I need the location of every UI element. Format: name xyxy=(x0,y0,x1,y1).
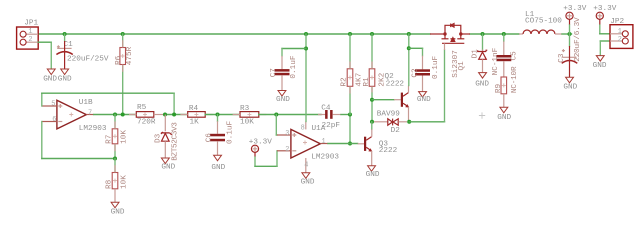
svg-text:2: 2 xyxy=(618,36,622,44)
wire: JP2 pin2 to ground xyxy=(600,40,610,42)
node junction C6 xyxy=(216,113,220,117)
node junction C2 branch xyxy=(407,46,411,50)
wire: +3.3V to U1A pin2 xyxy=(254,152,256,157)
ground GND (R8) xyxy=(111,202,125,216)
svg-text:R9: R9 xyxy=(495,83,503,93)
inductor L1 CO75-100 xyxy=(519,11,562,34)
ground GND (C7) xyxy=(276,91,290,104)
svg-text:GND: GND xyxy=(417,96,431,104)
svg-text:2222: 2222 xyxy=(379,147,398,155)
svg-text:10K: 10K xyxy=(120,175,128,189)
capacitor C3 220uF/6.3V xyxy=(558,17,582,77)
ground GND (JP1 pin2) xyxy=(43,69,57,84)
resistor R8 10K xyxy=(106,159,129,203)
transistor Q1 SI2307 p-mosfet xyxy=(430,24,470,78)
svg-text:+3.3V: +3.3V xyxy=(563,5,586,13)
wire: U1B pin6 loop to R7/R8 node xyxy=(41,122,43,159)
svg-text:720R: 720R xyxy=(137,119,156,127)
supply +3.3V (U1A ref) xyxy=(249,139,272,153)
svg-text:D1: D1 xyxy=(471,49,479,59)
ground GND (D3) xyxy=(161,158,175,171)
capacitor C6 0.1uF xyxy=(206,115,235,156)
capacitor C4 22pF xyxy=(318,105,341,131)
node junction D1 on rail xyxy=(481,32,485,36)
node junction R6 bottom xyxy=(121,113,125,117)
svg-text:7: 7 xyxy=(88,109,92,117)
svg-text:GND: GND xyxy=(366,171,380,179)
resistor R1 2K2 xyxy=(363,34,386,122)
svg-text:NC-1nF: NC-1nF xyxy=(492,47,500,75)
ground GND (C3) xyxy=(563,77,577,91)
svg-text:GND: GND xyxy=(497,114,511,122)
svg-text:R6: R6 xyxy=(115,55,123,65)
wire: R1 node to Q2 base xyxy=(372,99,394,101)
ground GND (D1) xyxy=(475,73,489,89)
diode D1 schottky xyxy=(471,34,487,72)
transistor Q2 2222 xyxy=(385,73,410,122)
svg-text:D3: D3 xyxy=(155,133,163,143)
svg-text:R8: R8 xyxy=(106,179,114,189)
svg-text:GND: GND xyxy=(563,84,577,92)
ground GND (C2) xyxy=(417,92,431,105)
resistor R3 10K xyxy=(233,105,267,127)
wire: C4 to R2/output node xyxy=(341,114,350,116)
resistor R2 4K7 xyxy=(341,34,364,115)
svg-text:Q1: Q1 xyxy=(458,61,466,71)
svg-text:C6: C6 xyxy=(206,133,214,143)
resistor R4 1K xyxy=(180,105,212,127)
svg-text:0.1uF: 0.1uF xyxy=(432,56,440,79)
wire: rail to Q2 collector / C2 branch xyxy=(408,34,410,86)
svg-text:1: 1 xyxy=(322,138,326,146)
connector JP1 xyxy=(17,20,39,49)
svg-text:GND: GND xyxy=(301,179,315,187)
supply +3.3V (JP2) xyxy=(593,5,616,19)
svg-text:4: 4 xyxy=(304,162,308,170)
node junction Q2 collector on rail xyxy=(407,32,411,36)
node junction Q2 emitter / D2 cathode xyxy=(407,120,411,124)
svg-text:D2: D2 xyxy=(391,127,401,135)
node junction feedback tap xyxy=(172,113,176,117)
svg-text:2: 2 xyxy=(28,36,32,44)
node junction R1 bottom / Q2 base xyxy=(370,98,374,102)
node junction C3 xyxy=(568,32,572,36)
supply +3.3V (output) xyxy=(563,5,586,34)
svg-text:2222: 2222 xyxy=(386,81,405,89)
node junction C4 right xyxy=(348,113,352,117)
node junction U1A output xyxy=(348,142,352,146)
svg-text:C5: C5 xyxy=(510,51,518,61)
node junction D3 xyxy=(163,113,167,117)
wire: rail to U1A pin8 xyxy=(305,34,307,122)
wire: rail to C1 xyxy=(64,34,66,41)
svg-text:8: 8 xyxy=(301,125,305,133)
capacitor C2 0.1uF xyxy=(412,56,440,92)
svg-text:R7: R7 xyxy=(106,134,114,144)
node junction U1A pin8 on rail xyxy=(304,32,308,36)
svg-text:GND: GND xyxy=(161,163,175,171)
wire: D2 node to Q1 gate riser xyxy=(409,121,444,123)
svg-text:R5: R5 xyxy=(137,104,147,112)
svg-text:10K: 10K xyxy=(120,130,128,144)
svg-text:R2: R2 xyxy=(341,77,349,87)
op-amp U1A LM2903 xyxy=(277,122,339,173)
node junction R7 bottom xyxy=(113,157,117,161)
ground GND (JP2) xyxy=(593,56,607,70)
svg-text:1K: 1K xyxy=(190,119,200,127)
node junction R1 on rail xyxy=(370,32,374,36)
svg-text:0.1uF: 0.1uF xyxy=(227,121,235,144)
wire: JP1 pin2 to ground xyxy=(38,41,51,43)
svg-text:GND: GND xyxy=(475,81,489,89)
wire: rail from Q1 drain to L1 xyxy=(470,33,519,35)
svg-text:0.1uF: 0.1uF xyxy=(290,55,298,78)
svg-text:U1A: U1A xyxy=(312,125,326,133)
svg-text:220uF/6.3V: 220uF/6.3V xyxy=(574,17,582,62)
svg-text:+3.3V: +3.3V xyxy=(249,139,272,147)
svg-text:C7: C7 xyxy=(270,68,278,78)
node junction R7 top xyxy=(113,113,117,117)
ground GND (C1) xyxy=(58,69,72,84)
svg-text:BZT52C3V3: BZT52C3V3 xyxy=(171,122,179,161)
svg-text:C2: C2 xyxy=(412,68,420,78)
svg-text:220uF/25V: 220uF/25V xyxy=(67,55,109,63)
node junction C7 branch xyxy=(304,47,308,51)
capacitor C5 NC-1nF xyxy=(492,34,518,77)
svg-text:3: 3 xyxy=(285,130,289,138)
resistor R7 10K xyxy=(106,115,129,159)
svg-text:GND: GND xyxy=(593,62,607,70)
node junction C5 on rail xyxy=(502,32,506,36)
wire: R3 to C4 node xyxy=(259,114,321,116)
wire: R4 to R3 segment xyxy=(205,114,240,116)
wire: R5 to R4 segment xyxy=(165,114,188,116)
svg-text:LM2903: LM2903 xyxy=(79,125,107,133)
resistor R9 NC-10R xyxy=(495,66,519,107)
node origin cross xyxy=(479,112,485,118)
node junction R2 on rail xyxy=(348,32,352,36)
wire: +3.3V to JP2 pin1 xyxy=(599,19,601,25)
svg-text:+3.3V: +3.3V xyxy=(593,5,616,13)
wire: L1 to C3 node xyxy=(562,33,572,35)
svg-text:GND: GND xyxy=(276,96,290,104)
diode D2 BAV99 xyxy=(374,110,407,134)
ground GND (R9) xyxy=(497,107,511,122)
svg-text:GND: GND xyxy=(58,76,72,84)
wire: branch to C2 xyxy=(409,47,423,49)
resistor R6 475R xyxy=(115,40,134,72)
resistor R5 720R xyxy=(129,104,165,127)
transistor Q3 2222 xyxy=(358,122,398,166)
node junction R1 / D2 anode / Q3 collector xyxy=(370,120,374,124)
wire: jog down to U1A pin3 xyxy=(275,115,277,136)
svg-text:C3: C3 xyxy=(558,53,566,63)
wire: rail through R6 to U1B output row xyxy=(122,34,124,115)
svg-text:GND: GND xyxy=(111,209,125,217)
svg-text:CO75-100: CO75-100 xyxy=(525,17,562,25)
capacitor C7 0.1uF xyxy=(270,55,298,90)
svg-text:5: 5 xyxy=(51,100,55,108)
wire: U1A output to Q3 base xyxy=(328,143,358,145)
op-amp U1B LM2903 xyxy=(42,99,107,133)
diode D3 zener BZT52C3V3 xyxy=(155,115,180,161)
svg-text:GND: GND xyxy=(43,76,57,84)
wire: U1B output row to R2 drop xyxy=(94,114,137,116)
node junction C1 on rail xyxy=(63,32,67,36)
connector JP2 xyxy=(610,18,633,48)
svg-text:BAV99: BAV99 xyxy=(377,110,400,118)
svg-text:1: 1 xyxy=(28,28,32,36)
svg-text:NC-10R: NC-10R xyxy=(511,66,519,93)
svg-text:10K: 10K xyxy=(240,119,254,127)
svg-text:475R: 475R xyxy=(126,46,134,65)
wire: branch to C7 xyxy=(282,48,306,50)
svg-text:2: 2 xyxy=(285,146,289,154)
svg-text:U1B: U1B xyxy=(79,99,93,107)
node junction R6 on rail xyxy=(121,32,125,36)
wire: U1B pin5 feedback from output node xyxy=(41,93,43,106)
ground GND (C6) xyxy=(211,155,225,172)
svg-text:R1: R1 xyxy=(363,77,371,87)
capacitor C1 220uF/25V xyxy=(56,41,109,69)
wire: main input rail from JP1 to Q1 xyxy=(38,33,430,35)
ground GND (Q3) xyxy=(366,166,380,179)
svg-text:6: 6 xyxy=(52,116,56,124)
svg-text:LM2903: LM2903 xyxy=(311,154,339,162)
ground GND (U1A pin4) xyxy=(301,173,315,187)
node junction U1A pin3 tap xyxy=(274,113,278,117)
svg-text:GND: GND xyxy=(211,164,225,172)
